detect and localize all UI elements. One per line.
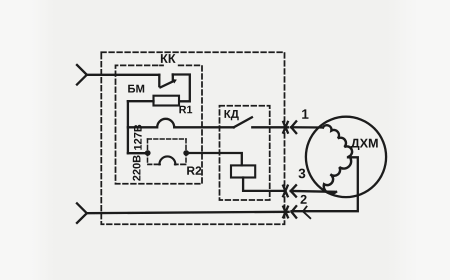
label R2 xyxy=(187,166,201,174)
wire: R2 right dot to start relay coil xyxy=(186,153,242,165)
R2 dashed box bottom edge left dashes xyxy=(148,163,160,165)
R2 dashed box left edge xyxy=(147,139,149,164)
connector pin, bottom-left input xyxy=(77,203,87,223)
label 2 xyxy=(301,195,307,204)
connector pin, phase input top-left xyxy=(77,65,87,85)
wire: KD contact to connector 1 xyxy=(252,126,288,128)
contact BM blade xyxy=(160,81,173,87)
label R1 xyxy=(179,106,192,113)
motor DHM stator circle xyxy=(306,117,386,197)
junction dot R2 right xyxy=(183,150,189,156)
label ДХМ xyxy=(351,139,378,150)
label 3 xyxy=(299,169,306,179)
heater element hump and wire to KD contact xyxy=(128,119,234,128)
wire: bottom supply line xyxy=(87,212,289,213)
connector 3 socket X xyxy=(283,186,288,197)
resistor R1 body xyxy=(154,96,180,106)
label 220В xyxy=(133,155,141,180)
connector 2 pin arrow xyxy=(292,206,297,217)
connector 2 socket X xyxy=(283,207,288,218)
junction dot 220V tap (R2 left) xyxy=(145,150,151,156)
contact BM fixed stud xyxy=(172,75,174,80)
wire: voltage tap vertical xyxy=(127,101,129,153)
start relay KD dashed box xyxy=(220,106,270,200)
start relay coil body xyxy=(231,165,255,177)
starting resistor R2 dashed box top edge xyxy=(148,138,187,140)
wire: coil bottom to connector 3 xyxy=(243,178,284,191)
contact BM (bimetal) pivot xyxy=(158,75,160,86)
motor winding tap wire to terminal 2 xyxy=(292,157,358,211)
label КД xyxy=(225,110,239,120)
label 1 xyxy=(302,109,308,118)
connector 1 pin arrow xyxy=(291,121,296,133)
motor winding scallops xyxy=(323,125,352,193)
outer dashed box: plug-in unit boundary xyxy=(101,52,284,224)
label БМ xyxy=(128,85,144,93)
wire: vertical to R2 left dot xyxy=(128,152,146,154)
connector 3 pin arrow xyxy=(291,185,296,196)
wire: R1 left to tap vertical xyxy=(128,100,154,102)
wire: BM contact to R1 right side xyxy=(173,75,190,102)
label КК xyxy=(161,54,176,63)
thermal relay KK dashed box xyxy=(116,65,203,183)
connector 1 socket X xyxy=(283,122,288,133)
label 127В xyxy=(134,125,142,150)
R2 dashed box bottom edge right dashes xyxy=(175,163,186,165)
contact KD blade xyxy=(234,117,252,127)
contact BM blade arrowhead xyxy=(173,80,177,83)
R2 element hump xyxy=(159,156,175,164)
wire: connector 1 to motor winding top xyxy=(291,126,323,129)
R2 dashed box right edge xyxy=(185,139,187,164)
wire: connector 3 to motor winding bottom xyxy=(291,190,334,193)
return wire arrowhead xyxy=(303,207,310,219)
wire: input to BM contact xyxy=(87,74,160,76)
